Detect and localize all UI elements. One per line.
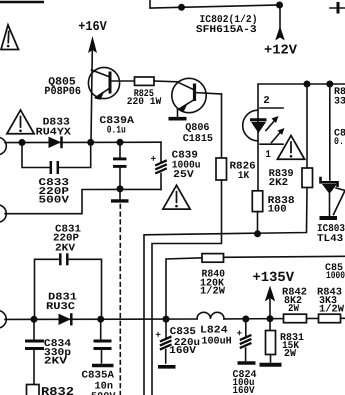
svg-text:1/2W: 1/2W [319, 303, 345, 315]
svg-text:2W: 2W [284, 348, 297, 360]
svg-text:1/2W: 1/2W [200, 285, 226, 297]
svg-text:+16V: +16V [78, 20, 107, 35]
svg-text:1: 1 [265, 149, 271, 161]
svg-text:2W: 2W [288, 303, 300, 315]
svg-text:33: 33 [334, 97, 345, 108]
svg-text:+12V: +12V [264, 44, 298, 59]
svg-text:+: + [155, 330, 161, 341]
svg-text:TL43: TL43 [317, 233, 343, 245]
svg-text:1000: 1000 [326, 271, 345, 282]
svg-text:+: + [151, 154, 157, 165]
svg-text:160V: 160V [169, 345, 197, 357]
svg-text:220 1W: 220 1W [127, 97, 162, 108]
svg-text:+: + [237, 328, 243, 339]
svg-text:100: 100 [268, 204, 287, 216]
svg-text:2K2: 2K2 [269, 177, 289, 189]
svg-text:100uH: 100uH [201, 336, 231, 348]
svg-text:RU3C: RU3C [46, 301, 75, 313]
svg-text:+135V: +135V [253, 270, 295, 286]
svg-text:500V: 500V [91, 391, 116, 395]
svg-text:1K: 1K [238, 170, 250, 182]
svg-text:25V: 25V [173, 169, 195, 181]
svg-text:2KV: 2KV [55, 243, 76, 255]
svg-text:2: 2 [263, 95, 270, 107]
svg-text:RU4YX: RU4YX [36, 126, 72, 138]
svg-text:SFH615A-3: SFH615A-3 [196, 24, 257, 36]
svg-text:R832: R832 [41, 385, 74, 395]
svg-text:P08P06: P08P06 [44, 86, 81, 98]
svg-text:500V: 500V [39, 194, 71, 206]
svg-text:0.1u: 0.1u [107, 125, 126, 137]
svg-text:C1815: C1815 [183, 133, 213, 145]
svg-text:2KV: 2KV [44, 355, 68, 367]
svg-text:0.: 0. [334, 137, 344, 148]
svg-text:160V: 160V [233, 385, 256, 395]
